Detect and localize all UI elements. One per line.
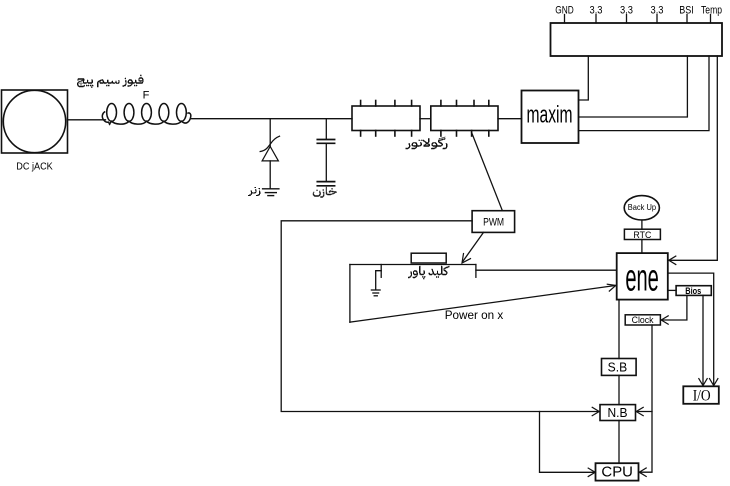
wire GND rail to maxim xyxy=(579,56,589,100)
wire battery to RTC xyxy=(641,220,643,229)
I/O xyxy=(683,386,719,404)
svg-text:maxim: maxim xyxy=(527,102,573,129)
svg-text:CPU: CPU xyxy=(601,465,633,481)
Clock xyxy=(625,315,660,326)
wire Bios to Clock xyxy=(662,295,687,320)
regulator IC U1 xyxy=(352,101,420,137)
wire BSI rail to maxim xyxy=(579,56,688,117)
label: capacitor (خازن) xyxy=(313,187,337,198)
capacitor C1 xyxy=(317,119,334,186)
controller U4 ene xyxy=(617,253,668,300)
RTC xyxy=(624,229,660,240)
power rail box xyxy=(551,23,723,56)
svg-text:RTC: RTC xyxy=(633,230,651,240)
zener diode D1 xyxy=(260,119,279,189)
wire PWM left routing to N.B xyxy=(281,221,598,412)
inductor F1 (fuse coil) xyxy=(102,104,191,125)
DC jack J1 xyxy=(2,90,68,173)
svg-text:PWM: PWM xyxy=(483,217,504,229)
PWM controller xyxy=(472,211,514,233)
pin 3.3 (1) xyxy=(590,5,603,24)
N.B xyxy=(600,405,636,421)
wire ene to S.B chain xyxy=(618,300,620,359)
svg-text:DC jACK: DC jACK xyxy=(16,161,53,173)
label: fuse coil (فیوز سیم پیچ) xyxy=(77,75,144,88)
Bios xyxy=(676,286,711,296)
svg-text:3.3: 3.3 xyxy=(620,5,633,17)
svg-text:ene: ene xyxy=(625,258,659,300)
ground (zener) xyxy=(263,189,279,196)
ground (switch) xyxy=(371,271,381,296)
label: zener (زنر) xyxy=(248,187,261,196)
wire rail to ene (right drop) xyxy=(670,56,718,260)
pin Temp xyxy=(701,5,722,24)
wire branch to CPU xyxy=(540,412,595,473)
wire ene to Bios xyxy=(668,289,676,291)
wire ene to I/O (right) xyxy=(668,273,714,385)
wire regulator U2 to PWM (diagonal) xyxy=(472,133,503,211)
svg-text:3.3: 3.3 xyxy=(590,5,603,17)
svg-text:Clock: Clock xyxy=(632,315,654,326)
svg-text:Bios: Bios xyxy=(685,286,701,296)
label: power switch (کلید پاور) xyxy=(408,266,450,280)
pin 3.3 (2) xyxy=(620,5,633,24)
svg-text:F: F xyxy=(143,90,150,102)
svg-text:N.B: N.B xyxy=(608,406,628,420)
wire Clock down to N.B and CPU xyxy=(640,325,652,472)
wire Power on x (diagonal arrow to ene) xyxy=(350,286,616,323)
regulator IC U2 xyxy=(431,101,498,137)
svg-text:Temp: Temp xyxy=(701,5,722,17)
svg-text:I/O: I/O xyxy=(693,388,711,405)
wire Temp rail to maxim xyxy=(579,56,709,131)
wire Bios to I/O xyxy=(702,295,704,385)
wire N.B to CPU xyxy=(618,421,620,464)
svg-text:GND: GND xyxy=(555,5,574,17)
wire Clock line into N.B right xyxy=(637,411,652,413)
svg-text:Power on x: Power on x xyxy=(445,308,504,322)
svg-text:Back Up: Back Up xyxy=(628,203,657,212)
pin GND xyxy=(555,5,574,24)
svg-text:3.3: 3.3 xyxy=(651,5,664,17)
svg-text:S.B: S.B xyxy=(608,361,628,375)
svg-text:BSI: BSI xyxy=(679,5,694,17)
IC U3 maxim xyxy=(522,91,579,144)
wire switch to ene xyxy=(476,269,617,271)
battery: Back Up xyxy=(624,196,659,220)
CPU xyxy=(596,463,639,481)
pin BSI xyxy=(679,5,694,24)
wire S.B to N.B xyxy=(618,375,620,404)
label: regulator (رگولاتور) xyxy=(406,137,448,150)
wire PWM to power switch (diagonal arrow) xyxy=(463,232,484,261)
wire inductor to regulator xyxy=(191,118,353,120)
S.B xyxy=(602,359,637,376)
wire regulator to maxim xyxy=(498,118,522,120)
wire between regulators xyxy=(420,118,431,120)
wire RTC to ene xyxy=(641,240,643,254)
pin 3.3 (3) xyxy=(651,5,664,24)
wire jack to inductor xyxy=(68,119,106,121)
power switch (کلید پاور) xyxy=(350,253,476,322)
